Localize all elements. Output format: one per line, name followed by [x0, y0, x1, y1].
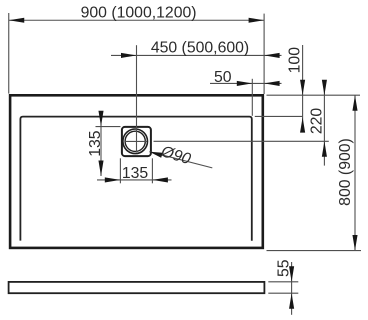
dim 800 up arrow [352, 95, 357, 111]
dim v135 top arrow [98, 111, 103, 127]
svg-text:135: 135 [122, 165, 149, 182]
dim h135 left arrow [105, 177, 121, 182]
svg-text:55: 55 [276, 259, 293, 277]
dim 50 right arrow [264, 81, 280, 86]
dim 55 up arrow [289, 293, 294, 309]
dim 55 line [291, 262, 293, 315]
dim 450 left arrow [121, 53, 137, 58]
dim 100 down arrow [300, 80, 305, 96]
ext line drain-center right [154, 140, 329, 142]
svg-text:135: 135 [87, 130, 104, 157]
dim 55 ext bottom [268, 292, 298, 294]
svg-text:800 (900): 800 (900) [337, 138, 354, 206]
dim 450 line [111, 54, 282, 56]
dim 50 left arrow [237, 81, 253, 86]
ext line inner-top right [255, 115, 303, 117]
svg-text:50: 50 [214, 69, 232, 86]
dim 220 up arrow [322, 141, 327, 157]
leader arrow [149, 152, 162, 158]
dim 220 line [323, 83, 325, 166]
svg-text:220: 220 [309, 108, 326, 135]
dim 100 up arrow [300, 117, 305, 132]
dim v135 bottom arrow [98, 161, 103, 177]
drain square [122, 127, 151, 156]
dim 900 right arrow [249, 18, 265, 23]
dim h135 right arrow [152, 177, 168, 182]
dim 50 line [210, 82, 282, 84]
leader line diameter [149, 152, 212, 168]
dim 100 line [302, 45, 304, 132]
side view rectangle [9, 282, 265, 293]
tray outer rectangle (top view) [10, 95, 263, 248]
drain outer circle [123, 129, 148, 154]
drain centerline vertical [136, 45, 138, 152]
svg-text:900 (1000,1200): 900 (1000,1200) [81, 4, 197, 21]
tick drain-top left [96, 126, 121, 128]
ext line right [263, 14, 265, 94]
dim h135 ext right [151, 158, 153, 183]
drain inner circle [125, 131, 145, 151]
dim 450 right arrow [264, 53, 280, 58]
svg-text:100: 100 [287, 47, 304, 74]
dim 900 line [9, 19, 264, 21]
ext line left [8, 13, 10, 94]
dim 220 down arrow [322, 80, 327, 96]
dim h135 ext left [119, 158, 121, 183]
dim h135 line [97, 179, 172, 181]
ext line tray-bottom right [267, 250, 362, 252]
svg-text:450 (500,600): 450 (500,600) [151, 40, 249, 57]
dim v135 line [100, 117, 102, 176]
dim 55 ext top [268, 281, 298, 283]
drain crosshair horizontal [125, 140, 147, 142]
dim 800 down arrow [352, 235, 357, 251]
ext line tray-top right [267, 94, 361, 96]
dim 900 left arrow [9, 18, 25, 23]
tray inner outline (open bottom) [20, 117, 251, 241]
dim 55 down arrow [289, 266, 294, 282]
ext line inner-right [251, 79, 253, 116]
dim 800 line [354, 95, 356, 250]
